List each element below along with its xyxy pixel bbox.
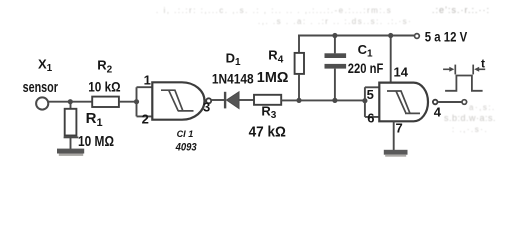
wire R1 to ground [70,136,72,150]
svg-text:a·,s:.: a·,s:. [469,103,496,112]
svg-text:1: 1 [144,73,151,88]
svg-text:s.b:d.w·a:s.: s.b:d.w·a:s. [444,113,496,123]
wire pin 7 [393,121,395,150]
node pin 14 drop [388,33,393,38]
node C1 bottom [332,98,337,103]
diode D1 [224,92,239,109]
NAND gate U1b (CI1 4093) [379,83,428,122]
node gate1 input junction [134,99,139,104]
svg-text:220 nF: 220 nF [348,60,384,76]
svg-text:10 MΩ: 10 MΩ [78,134,114,150]
wire input bracket to pins 5 and 6 [365,87,379,117]
resistor R3 [254,95,281,105]
svg-text:6: 6 [367,110,374,125]
svg-text:47 kΩ: 47 kΩ [249,124,287,140]
svg-text:.,. .s . .a: . .:r .. :.d: .,. .s . .a: . .:r .. :.ds..s:. .:.·s· [258,17,412,26]
node gate2 input junction [362,98,367,103]
supply terminal [415,34,420,39]
svg-text:10 kΩ: 10 kΩ [88,79,120,95]
resistor R1 [64,109,79,138]
ground right [384,150,408,157]
capacitor C1 [325,36,347,101]
pulse timing symbol [443,65,485,91]
wire R3 to gate2 input [281,99,365,101]
schmitt trigger symbol U1a [161,90,194,111]
svg-text:.:e’:s.·r.:.··:: .:e’:s.·r.:.··: [432,5,490,15]
wire bubble to diode D1 [212,99,224,101]
output bubble U1b pin 4 [433,100,438,105]
input terminal X1 [36,97,48,109]
svg-text:3: 3 [203,100,210,115]
svg-text:. i, .:.:r: :,...c. ,.s. .: ,: . i, .:.:r: :,...c. ,.s. .: , :.. .. . ,… [156,6,392,15]
wire pin 14 [390,36,392,84]
svg-text:t: t [481,56,485,70]
svg-text:2: 2 [142,111,149,126]
svg-text:5: 5 [367,87,374,102]
wire input bracket to pins 1 and 2 [137,87,153,116]
power rail [298,35,414,37]
svg-text:4: 4 [434,105,442,120]
schmitt trigger symbol U1b [387,91,420,113]
wire R4 top to rail [298,36,300,54]
svg-text:1N4148: 1N4148 [212,71,254,86]
output bubble U1a pin 3 [206,98,211,103]
node B junction R4 [296,98,301,103]
svg-text:CI 1: CI 1 [177,129,194,140]
resistor R2 [92,97,119,107]
svg-text:14: 14 [394,64,409,79]
svg-text:: .,·.s·.: : .,·.s·. [452,125,488,134]
wire bubble to output terminal [438,101,462,103]
node junction A [68,99,73,104]
svg-text:4093: 4093 [175,142,197,154]
wire diode to R3 [239,99,254,101]
svg-text:1MΩ: 1MΩ [257,70,289,86]
node C1 top [332,33,337,38]
wire junction A to R1 [70,102,72,110]
ground left [57,149,84,156]
wire R2 to gate1 input node [119,101,137,103]
svg-text:7: 7 [396,121,403,136]
wire terminal to R2 [49,101,92,103]
wire R4 bottom to node B [298,74,300,101]
svg-text:sensor: sensor [23,80,59,96]
resistor R4 [295,53,304,74]
svg-text:5 a 12 V: 5 a 12 V [425,30,467,45]
output terminal [462,100,467,105]
NAND gate U1a (CI1 4093) [152,82,204,119]
